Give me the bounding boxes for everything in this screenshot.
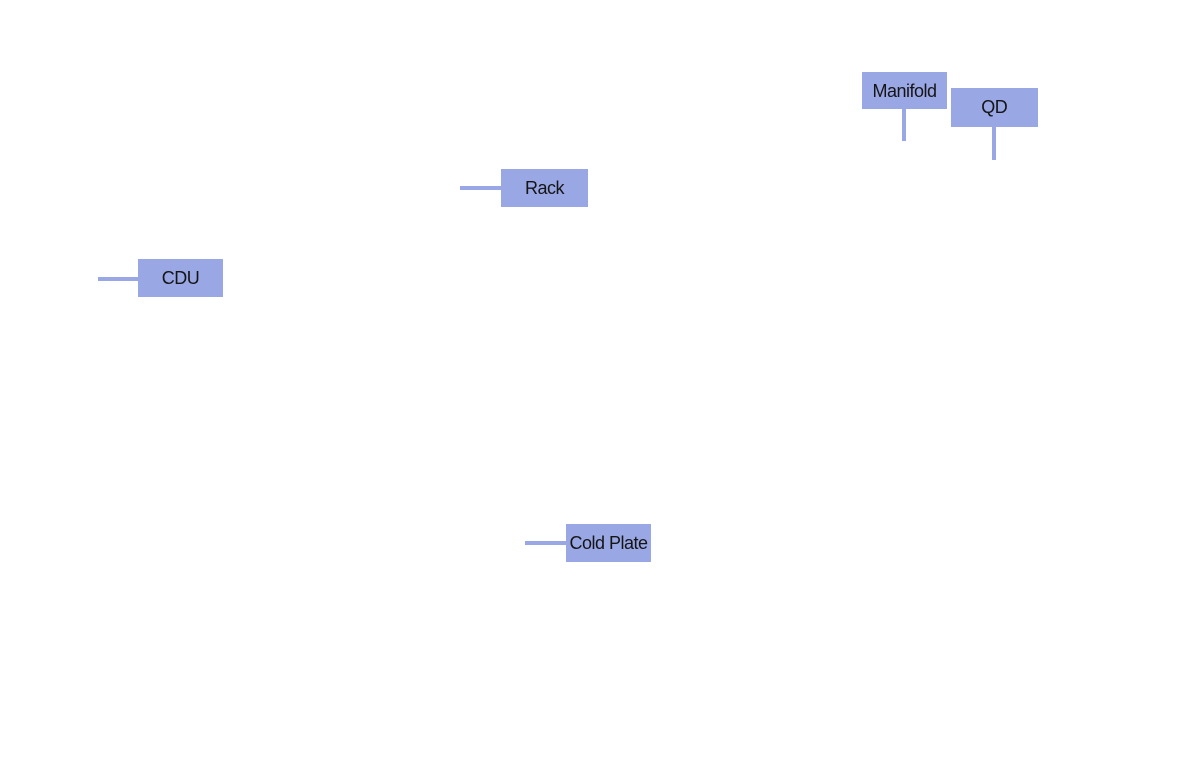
label QD: [951, 88, 1038, 127]
label CDU: [138, 259, 223, 297]
wire Rack leader: [460, 186, 501, 190]
wire Manifold stem: [902, 108, 906, 141]
wire Cold Plate leader: [525, 541, 566, 545]
wire CDU leader: [98, 277, 138, 281]
label Rack: [501, 169, 588, 207]
label Manifold: [862, 72, 947, 109]
wire QD stem: [992, 127, 996, 160]
label Cold Plate: [566, 524, 651, 562]
